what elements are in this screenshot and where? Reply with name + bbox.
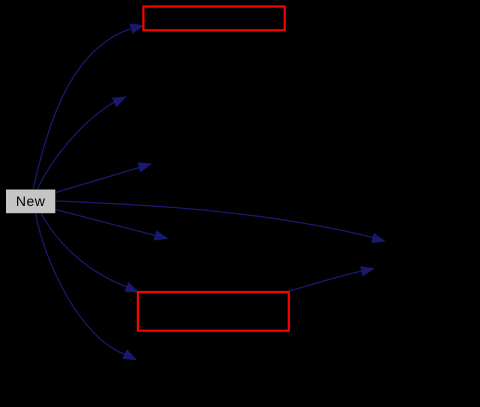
arrowhead edge lower red node -> right node — [360, 266, 375, 276]
arrowhead edge New -> lower red node — [125, 282, 140, 293]
wire edge lower red node -> right node — [289, 271, 362, 291]
wire edge New -> bottom node — [36, 214, 125, 355]
arrowhead edge New -> far right node — [371, 233, 386, 243]
wire edge New -> node row3 — [56, 168, 140, 193]
arrowhead edge New -> node row2 — [112, 96, 127, 107]
node lower red rectangle (truncated node) — [138, 292, 289, 331]
wire edge New -> top red node — [33, 29, 131, 189]
arrowhead edge New -> node row4 — [154, 230, 169, 240]
arrowhead edge New -> bottom node — [122, 349, 137, 360]
node top red rectangle (truncated node) — [143, 7, 284, 31]
wire edge New -> node row4 — [55, 210, 155, 236]
arrowhead edge New -> top red node — [130, 24, 145, 34]
wire edge New -> lower red node — [41, 214, 127, 287]
arrowhead edge New -> node row3 — [137, 162, 152, 172]
wire edge New -> node row2 — [38, 102, 115, 189]
svg-text:New: New — [16, 193, 46, 209]
node New (current node, grey filled) — [6, 190, 55, 214]
wire edge New -> far right node (long) — [55, 201, 373, 238]
